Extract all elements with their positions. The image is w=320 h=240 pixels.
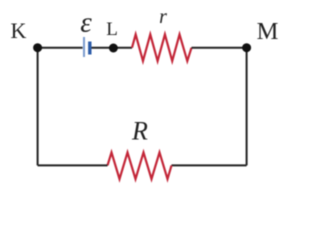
svg-text:r: r xyxy=(159,6,167,28)
node L (junction dot) xyxy=(109,44,118,53)
node M (junction dot) xyxy=(242,43,251,52)
node K (junction dot) xyxy=(33,43,42,52)
wire left side: K down xyxy=(37,48,39,166)
svg-text:R: R xyxy=(131,116,148,145)
wire right side: M down xyxy=(246,48,248,166)
resistor r (zigzag) xyxy=(132,34,192,61)
wire resistor r to M xyxy=(192,47,247,49)
wire battery to L xyxy=(92,47,114,49)
battery cell ε (short plate) xyxy=(88,42,91,55)
resistor R (zigzag) xyxy=(108,152,172,179)
wire bottom-right xyxy=(172,164,247,166)
wire bottom-left xyxy=(38,164,108,166)
battery cell ε (long plate) xyxy=(83,37,85,57)
svg-text:M: M xyxy=(257,18,279,45)
svg-text:ε: ε xyxy=(80,7,92,39)
svg-text:L: L xyxy=(106,19,118,40)
wire L to resistor r xyxy=(113,47,132,49)
wire top-left: K to battery xyxy=(38,47,83,49)
svg-text:K: K xyxy=(10,18,26,43)
